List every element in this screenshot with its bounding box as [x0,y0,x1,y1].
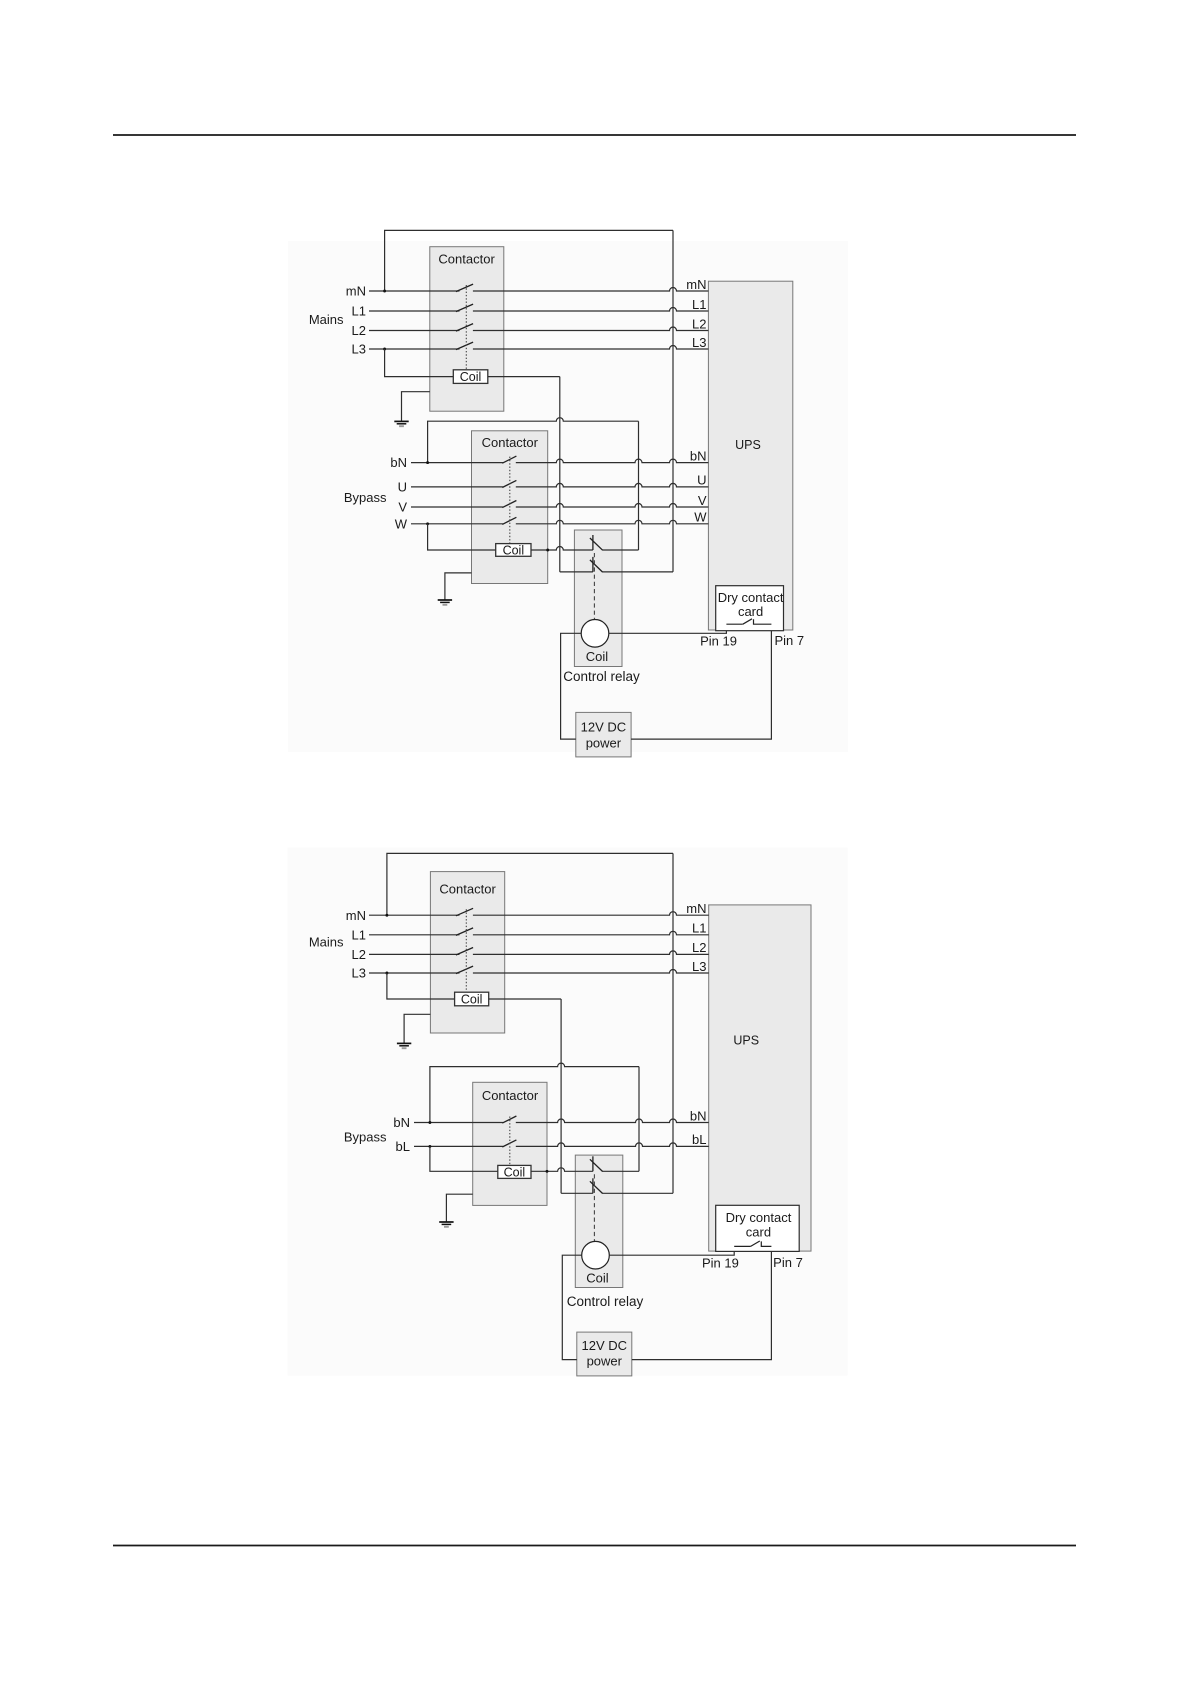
coil box K1 (top diagram) [453,370,488,384]
junction node coil K2 wire at box edge (bottom diagram) [546,1170,549,1173]
wire mains L3 left (top diagram) [369,348,460,350]
wire mains mN left (top diagram) [369,290,460,292]
contactor K1 contact on L2 (top diagram) [456,324,473,332]
coil box K2 (bottom diagram) [498,1165,531,1178]
wire mains L2 left (bottom diagram) [369,953,460,955]
svg-text:UPS: UPS [735,438,761,452]
wire mains mN right (bottom diagram) [473,912,709,916]
wire bypass phase to coil K2 (bottom diagram) [430,1146,498,1171]
svg-text:Pin 7: Pin 7 [773,1255,803,1270]
contactor K2 contact on V (top diagram) [502,501,516,508]
svg-text:Contactor: Contactor [482,435,539,450]
contactor K2 box (bottom diagram) [473,1082,547,1205]
svg-text:L1: L1 [352,304,366,319]
svg-text:L1: L1 [352,927,366,942]
wire vertical v1 coil K1 to relay contact 2 (top diagram) [559,377,561,572]
svg-text:L1: L1 [692,297,706,312]
svg-text:L3: L3 [692,959,706,974]
svg-text:V: V [398,500,407,515]
svg-text:L2: L2 [692,316,706,331]
svg-text:U: U [697,473,706,488]
svg-text:12V DC: 12V DC [581,720,627,735]
wire bypass W left (top diagram) [411,523,503,525]
wire v1 to relay contact 2 left (bottom diagram) [561,1192,593,1194]
svg-text:W: W [694,510,707,525]
contactor K2 actuator dotted line (bottom diagram) [509,1117,511,1166]
contactor K2 contact on U (top diagram) [502,480,516,487]
wire coil K1 to v1 (top diagram) [488,376,560,378]
svg-text:L3: L3 [352,966,366,981]
wire L3 to coil K1 (top diagram) [385,349,454,377]
control relay coil (bottom diagram) [582,1241,610,1269]
wire relay coil to 12V DC power (bottom diagram) [562,1255,581,1359]
ground PE contactor K2 (bottom diagram) [439,1222,453,1227]
dry contact card switch pins 19-7 (top diagram) [726,623,742,625]
svg-text:V: V [698,493,707,508]
12V DC power box (bottom diagram) [577,1332,632,1376]
ground PE contactor K2 (top diagram) [438,600,452,605]
wire bypass W right (top diagram) [516,520,709,523]
contactor K2 contact on bL (bottom diagram) [502,1140,516,1147]
wire coil K2 to relay contact 1 (top diagram) [531,547,593,550]
svg-text:Dry contact: Dry contact [726,1210,792,1225]
wire mains L3 right (top diagram) [473,346,709,350]
panel background (top diagram) [288,241,848,752]
dry contact card box (bottom diagram) [716,1205,800,1251]
svg-text:bN: bN [690,1108,707,1123]
svg-text:Coil: Coil [586,649,609,664]
wire contactor K2 ground wire (bottom diagram) [446,1194,472,1222]
svg-text:L2: L2 [352,323,366,338]
svg-text:Mains: Mains [309,312,344,327]
svg-text:12V DC: 12V DC [582,1338,628,1353]
wire contactor K1 ground wire (bottom diagram) [404,1014,430,1043]
12V DC power box (top diagram) [576,712,631,757]
wire vertical v2 to relay contact 1 (top diagram) [638,421,640,550]
ground PE contactor K1 (bottom diagram) [397,1043,411,1048]
UPS box U1 (bottom diagram) [709,905,811,1251]
dry contact card switch pins 19-7 (bottom diagram) [734,1245,750,1247]
control relay coil (top diagram) [581,620,609,648]
wire mains L2 right (bottom diagram) [473,951,709,955]
svg-text:bN: bN [390,455,407,470]
contactor K1 contact on L2 (bottom diagram) [456,948,473,956]
svg-text:Pin 19: Pin 19 [700,634,737,649]
svg-text:Contactor: Contactor [438,251,495,266]
svg-text:L3: L3 [352,342,366,357]
svg-text:Coil: Coil [460,370,482,384]
ground PE contactor K1 (top diagram) [394,421,408,426]
contactor K1 contact on mN (top diagram) [456,284,473,292]
svg-text:W: W [395,516,408,531]
svg-text:Coil: Coil [586,1271,609,1286]
svg-text:UPS: UPS [733,1034,759,1048]
junction node last bypass junction (bottom diagram) [428,1145,431,1148]
svg-text:bL: bL [692,1132,706,1147]
wire mains L1 left (bottom diagram) [369,934,460,936]
contactor K1 contact on L1 (bottom diagram) [456,928,473,936]
wire vertical v3 from top loop to relay contact 2 (top diagram) [672,230,674,572]
contactor K1 contact on L3 (top diagram) [456,342,473,350]
svg-text:Mains: Mains [309,934,344,949]
wire bypass phase to coil K2 (top diagram) [428,524,496,550]
svg-text:Dry contact: Dry contact [718,590,784,605]
wire bypass bN right (bottom diagram) [516,1119,709,1123]
svg-text:Pin 19: Pin 19 [702,1256,739,1271]
svg-text:U: U [398,480,407,495]
wire bypass bL left (bottom diagram) [414,1145,503,1147]
junction node mN junction (top diagram) [383,290,386,293]
wire vertical v1 coil K1 to relay contact 2 (bottom diagram) [560,999,562,1193]
junction node mN junction (bottom diagram) [385,914,388,917]
wire contactor K1 ground wire (top diagram) [402,392,430,422]
wire coil K2 to relay contact 1 (bottom diagram) [531,1168,593,1172]
contactor K1 contact on L1 (top diagram) [456,304,473,312]
UPS box U1 (top diagram) [708,281,792,630]
wire relay coil to Pin 19 (top diagram) [609,624,727,633]
wire relay contact 2 right to v3 (top diagram) [602,571,673,573]
wire relay coil to 12V DC power (top diagram) [561,633,582,739]
wire 12V DC power to Pin 7 (bottom diagram) [632,1246,772,1359]
wire mains L2 left (top diagram) [369,330,460,332]
wire bypass bN left (top diagram) [411,462,503,464]
wire mains mN left (bottom diagram) [369,914,460,916]
svg-text:L2: L2 [352,947,366,962]
control relay actuator dashed line (bottom diagram) [593,1174,595,1241]
wire mains mN right (top diagram) [473,288,709,292]
wire bypass bL right (bottom diagram) [516,1143,709,1147]
wire mains L3 left (bottom diagram) [369,972,460,974]
wire bypass bN left (bottom diagram) [414,1122,503,1124]
control relay contact 2 (bottom diagram) [592,1178,594,1193]
svg-text:L1: L1 [692,921,706,936]
svg-text:mN: mN [346,908,366,923]
wire coil K1 to v1 (bottom diagram) [489,998,561,1000]
svg-text:L2: L2 [692,940,706,955]
junction node last bypass junction (top diagram) [426,522,429,525]
svg-text:card: card [746,1224,771,1239]
wire L3 to coil K1 (bottom diagram) [387,973,455,999]
svg-text:Pin 7: Pin 7 [774,633,804,648]
control relay contact 1 (top diagram) [592,535,594,550]
svg-text:Coil: Coil [503,543,525,557]
svg-text:bL: bL [396,1139,410,1154]
wire top loop mN to v3 (bottom diagram) [387,853,673,915]
control relay KA box (top diagram) [574,530,622,667]
junction node coil K2 wire at box edge (top diagram) [546,549,549,552]
contactor K2 actuator dotted line (top diagram) [509,457,511,544]
contactor K1 actuator dotted line (top diagram) [465,285,467,370]
svg-text:Control relay: Control relay [563,669,640,684]
coil box K2 (top diagram) [496,544,531,557]
wire mains L3 right (bottom diagram) [473,970,709,974]
svg-text:Control relay: Control relay [567,1294,644,1309]
control relay contact 1 (bottom diagram) [592,1156,594,1171]
wire bypass U left (top diagram) [411,486,503,488]
svg-text:Contactor: Contactor [439,881,496,896]
control relay KA box (bottom diagram) [575,1155,623,1287]
contactor K2 contact on bN (top diagram) [502,456,516,463]
wire v1 to relay contact 2 left (top diagram) [560,571,593,573]
svg-text:bN: bN [393,1115,410,1130]
junction node bN junction (bottom diagram) [428,1121,431,1124]
svg-text:mN: mN [686,277,706,292]
svg-text:card: card [738,604,763,619]
contactor K1 contact on L3 (bottom diagram) [456,966,473,974]
panel background (bottom diagram) [288,848,848,1376]
svg-text:mN: mN [686,901,706,916]
svg-text:power: power [586,735,622,750]
coil box K1 (bottom diagram) [455,992,489,1006]
wire bypass U right (top diagram) [516,483,709,486]
wire bypass loop bN to v2 (bottom diagram) [430,1063,639,1122]
wire contactor K2 ground wire (top diagram) [445,573,472,600]
wire top loop mN to v3 (top diagram) [385,230,673,291]
contactor K2 contact on W (top diagram) [502,517,516,524]
control relay actuator dashed line (top diagram) [593,553,595,620]
contactor K1 actuator dotted line (bottom diagram) [465,909,467,992]
wire mains L1 right (top diagram) [473,308,709,312]
control relay contact 2 (top diagram) [592,557,594,572]
junction node L3 junction (top diagram) [383,348,386,351]
contactor K1 contact on mN (bottom diagram) [456,908,473,916]
svg-text:Coil: Coil [461,992,483,1006]
junction node L3 junction (bottom diagram) [385,972,388,975]
svg-text:Bypass: Bypass [344,1130,387,1145]
svg-text:mN: mN [346,284,366,299]
wire mains L2 right (top diagram) [473,327,709,331]
wire bypass loop bN to v2 (top diagram) [428,418,639,463]
junction node bN junction (top diagram) [426,461,429,464]
header rule [113,134,1076,136]
footer rule [113,1545,1076,1547]
wire relay contact 1 right to v2 (top diagram) [602,549,638,551]
contactor K2 box (top diagram) [472,431,548,584]
wire bypass V left (top diagram) [411,506,503,508]
svg-text:Coil: Coil [504,1165,526,1179]
wire 12V DC power to Pin 7 (top diagram) [631,624,771,739]
contactor K1 box (bottom diagram) [430,872,504,1033]
wire bypass bN right (top diagram) [516,459,709,463]
wire vertical v2 to relay contact 1 (bottom diagram) [638,1067,640,1172]
wire relay contact 1 right to v2 (bottom diagram) [602,1170,639,1172]
wire mains L1 left (top diagram) [369,310,460,312]
svg-text:Contactor: Contactor [482,1088,539,1103]
wire mains L1 right (bottom diagram) [473,931,709,934]
wire bypass V right (top diagram) [516,504,709,508]
svg-text:bN: bN [690,448,707,463]
contactor K2 contact on bN (bottom diagram) [502,1116,516,1123]
wire relay contact 2 right to v3 (bottom diagram) [602,1192,673,1194]
dry contact card box (top diagram) [716,586,784,631]
wire vertical v3 from top loop to relay contact 2 (bottom diagram) [672,853,674,1193]
svg-text:power: power [587,1354,623,1369]
wire relay coil to Pin 19 (bottom diagram) [609,1246,734,1255]
contactor K1 box (top diagram) [430,247,504,412]
svg-text:Bypass: Bypass [344,490,387,505]
svg-text:L3: L3 [692,335,706,350]
